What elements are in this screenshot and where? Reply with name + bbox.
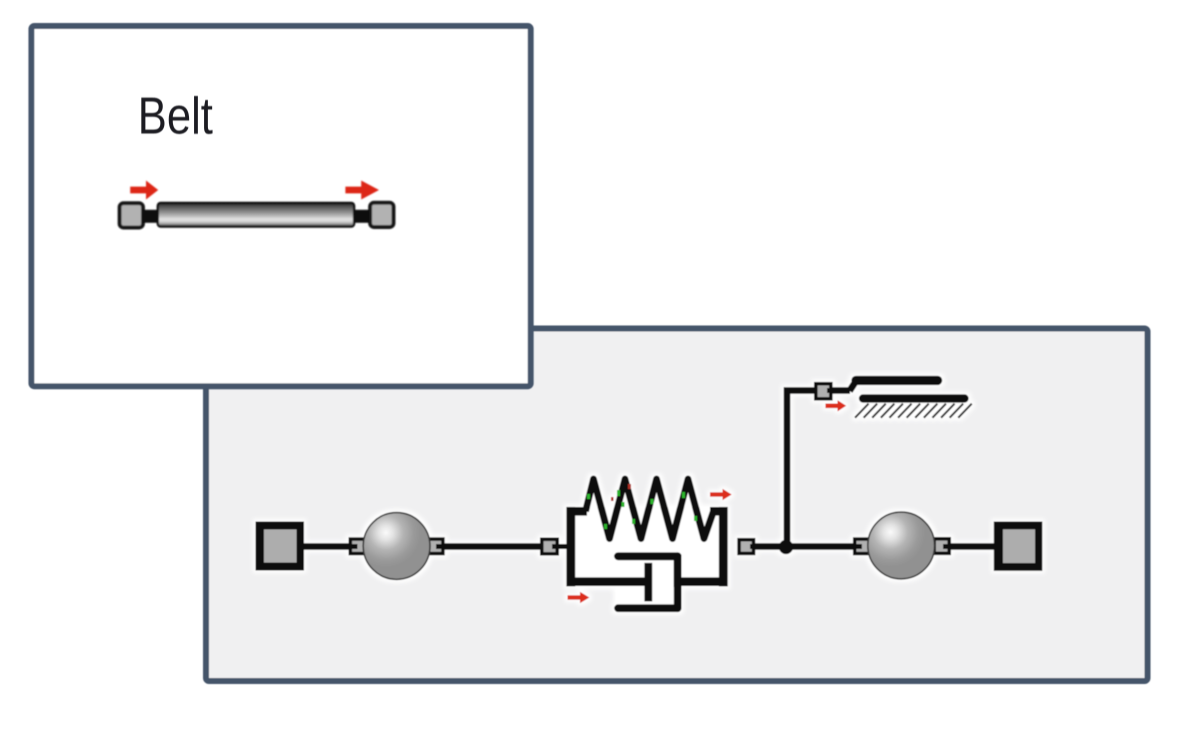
wire mass1 to springdamper bbox=[444, 543, 542, 550]
mass 2 sphere bbox=[868, 512, 935, 579]
Belt label bbox=[138, 88, 213, 145]
mass1 left connector bbox=[348, 539, 365, 554]
damper cylinder top bbox=[618, 552, 678, 560]
belt left arrow (red) bbox=[130, 181, 158, 200]
damper direction arrow (red) bbox=[568, 592, 590, 603]
wire left flange to mass1 bbox=[302, 543, 352, 550]
damper cylinder bottom bbox=[618, 604, 678, 612]
fixed hatching bbox=[855, 404, 972, 418]
wire mass2 to right flange bbox=[950, 543, 996, 550]
spring-damper white background bbox=[566, 507, 728, 587]
fixed stub bbox=[831, 387, 850, 394]
damper lead right bbox=[681, 577, 723, 586]
wire node up to fixed bbox=[787, 391, 816, 551]
belt right square connector bbox=[370, 203, 393, 227]
fixed top bar bbox=[856, 376, 938, 385]
damper cylinder wall bbox=[674, 556, 682, 608]
diagram panel (lower right) bbox=[206, 329, 1148, 682]
right flange square bbox=[994, 522, 1043, 571]
springdamper left bar bbox=[566, 511, 575, 582]
spring artifacts (green speckles) bbox=[587, 490, 697, 529]
belt left shaft bbox=[142, 210, 159, 223]
spring top-right lead bbox=[710, 507, 723, 516]
left flange square bbox=[256, 522, 305, 571]
fixed connector square bbox=[816, 384, 838, 399]
damper piston plate bbox=[644, 567, 652, 598]
mass 1 sphere bbox=[363, 513, 430, 580]
belt left square connector bbox=[120, 203, 143, 227]
spring top-left lead bbox=[567, 507, 588, 516]
springdamper right bar bbox=[719, 511, 728, 582]
belt right arrow (red) bbox=[345, 181, 379, 200]
icon panel (upper left) bbox=[31, 26, 530, 386]
svg-text:Belt: Belt bbox=[138, 88, 213, 145]
belt bar bbox=[158, 203, 354, 227]
spring direction arrow (red) bbox=[710, 489, 732, 500]
wire springdamper to node to mass2 bbox=[753, 543, 856, 550]
junction node bbox=[779, 540, 793, 554]
damper lead left bbox=[567, 577, 650, 586]
springdamper right connector bbox=[739, 540, 760, 554]
belt right shaft bbox=[353, 210, 369, 223]
spring zigzag bbox=[586, 479, 714, 539]
mass2 left connector bbox=[852, 539, 870, 554]
mass2 right connector bbox=[934, 539, 953, 554]
fixed support direction arrow (red) bbox=[825, 400, 846, 411]
springdamper left connector bbox=[542, 539, 569, 554]
fixed riser bbox=[850, 381, 857, 391]
fixed lower bar bbox=[863, 394, 965, 402]
mass1 right connector bbox=[428, 539, 446, 554]
